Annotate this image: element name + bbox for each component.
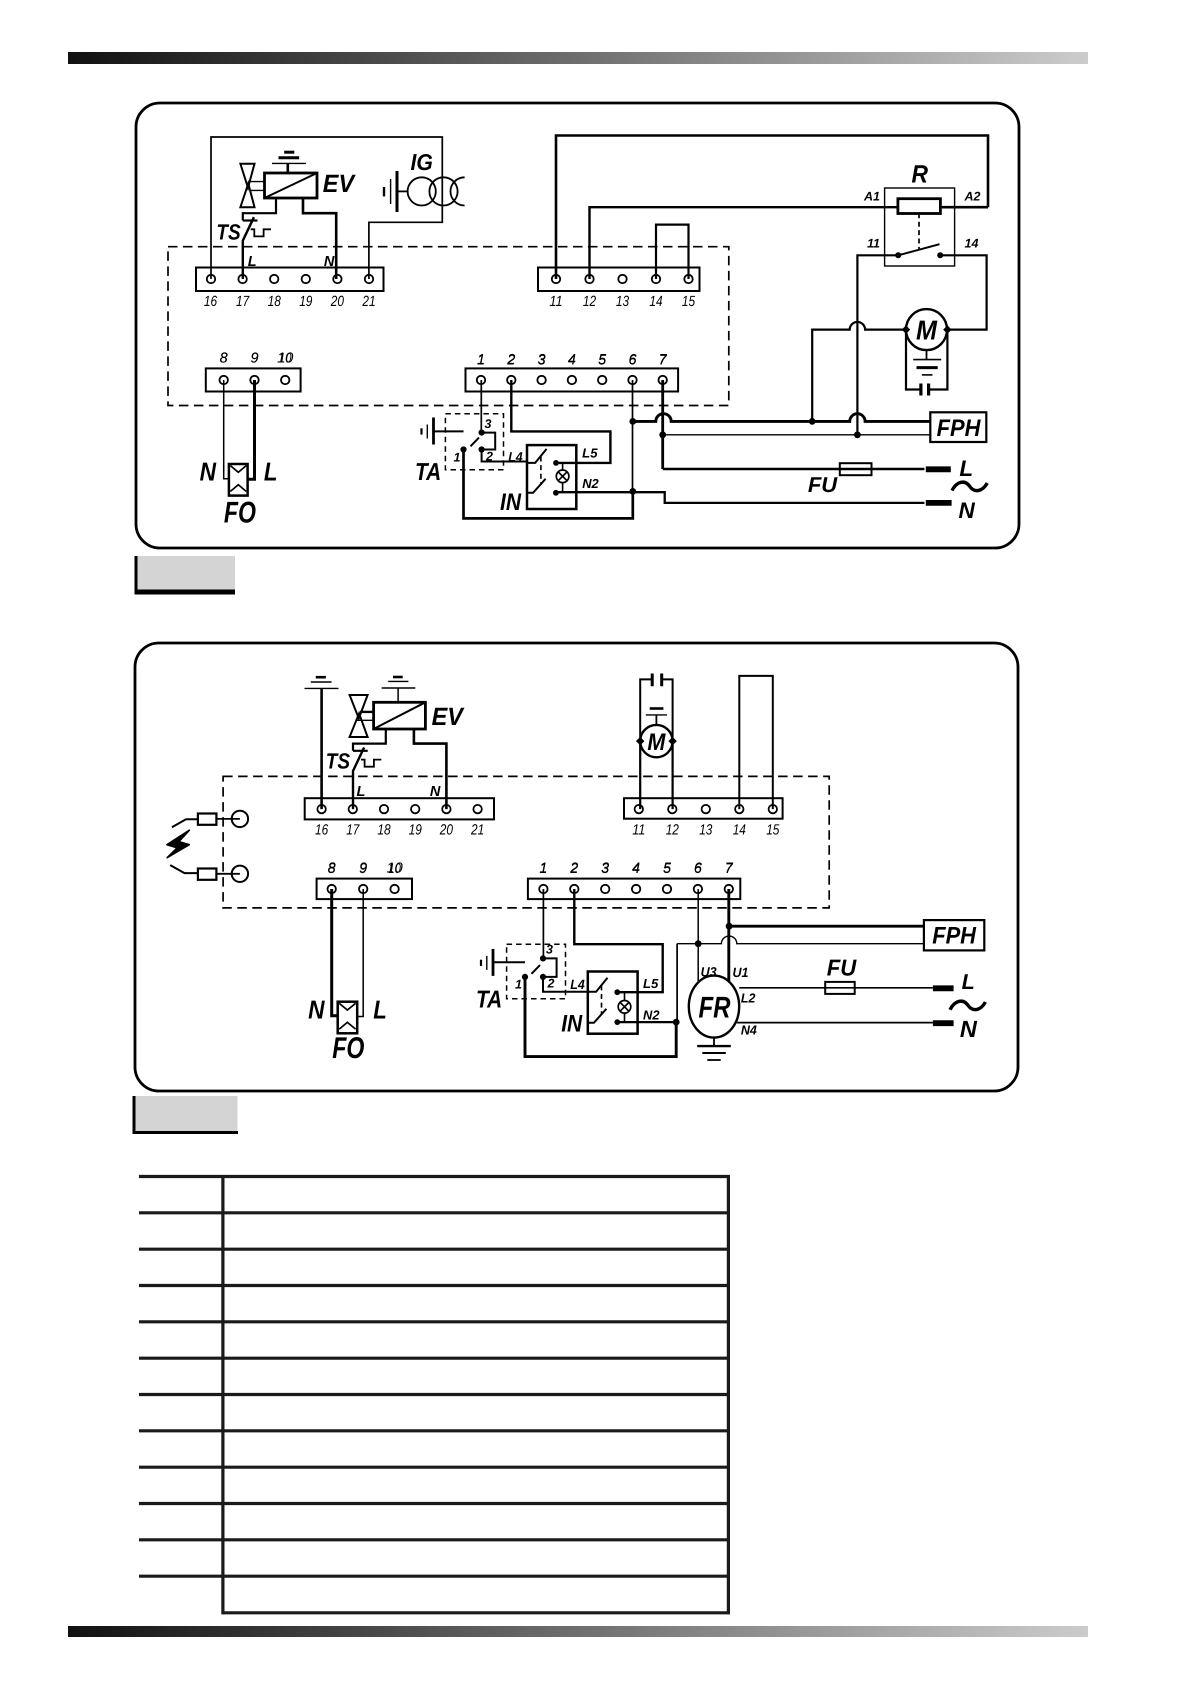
- svg-text:5: 5: [663, 861, 672, 877]
- svg-text:L: L: [357, 784, 366, 800]
- svg-text:4: 4: [632, 861, 640, 877]
- svg-text:L5: L5: [582, 445, 598, 460]
- svg-text:7: 7: [725, 861, 734, 877]
- svg-text:7: 7: [659, 352, 668, 368]
- svg-text:15: 15: [766, 823, 780, 839]
- svg-text:FPH: FPH: [937, 415, 981, 442]
- svg-text:EV: EV: [432, 703, 465, 731]
- svg-text:9: 9: [250, 351, 258, 367]
- svg-text:16: 16: [315, 823, 329, 839]
- svg-text:N: N: [959, 498, 976, 523]
- svg-text:FU: FU: [808, 473, 838, 497]
- svg-text:IN: IN: [500, 489, 522, 516]
- svg-text:15: 15: [682, 294, 696, 310]
- svg-text:16: 16: [204, 294, 218, 310]
- svg-text:12: 12: [666, 823, 680, 839]
- svg-text:12: 12: [583, 294, 597, 310]
- svg-text:L2: L2: [741, 990, 756, 1005]
- svg-text:N4: N4: [741, 1022, 758, 1037]
- svg-text:N: N: [324, 254, 335, 270]
- svg-text:N: N: [308, 995, 325, 1025]
- svg-text:M: M: [647, 729, 666, 756]
- svg-text:N2: N2: [582, 476, 599, 491]
- svg-text:17: 17: [346, 823, 360, 839]
- svg-text:L4: L4: [508, 450, 523, 465]
- svg-text:FU: FU: [827, 955, 858, 981]
- svg-text:L: L: [373, 995, 387, 1025]
- svg-text:17: 17: [236, 294, 250, 310]
- svg-text:20: 20: [439, 823, 454, 839]
- svg-text:3: 3: [601, 861, 609, 877]
- svg-text:3: 3: [538, 352, 546, 368]
- svg-text:L: L: [248, 254, 257, 270]
- svg-text:N: N: [430, 784, 441, 800]
- svg-text:18: 18: [268, 294, 282, 310]
- svg-text:6: 6: [628, 352, 637, 368]
- svg-text:1: 1: [477, 352, 485, 368]
- svg-text:4: 4: [568, 352, 576, 368]
- svg-text:N: N: [200, 456, 217, 486]
- svg-text:9: 9: [359, 861, 367, 877]
- svg-text:13: 13: [699, 823, 713, 839]
- svg-text:M: M: [916, 315, 938, 346]
- svg-text:L: L: [959, 456, 973, 481]
- svg-text:FO: FO: [332, 1032, 364, 1065]
- svg-text:2: 2: [506, 352, 515, 368]
- svg-text:TA: TA: [415, 459, 441, 486]
- svg-text:14: 14: [649, 294, 662, 310]
- svg-text:L: L: [264, 456, 278, 486]
- svg-text:1: 1: [454, 451, 461, 465]
- svg-text:FR: FR: [699, 992, 731, 1025]
- svg-text:2: 2: [547, 977, 555, 991]
- svg-text:5: 5: [598, 352, 607, 368]
- svg-text:EV: EV: [323, 170, 356, 198]
- svg-text:L5: L5: [643, 976, 659, 991]
- svg-text:IG: IG: [411, 149, 434, 175]
- svg-text:21: 21: [470, 823, 484, 839]
- svg-text:R: R: [912, 161, 929, 189]
- svg-text:3: 3: [546, 943, 553, 957]
- svg-text:18: 18: [377, 823, 391, 839]
- svg-text:19: 19: [299, 294, 312, 310]
- svg-text:1: 1: [515, 978, 522, 992]
- svg-text:8: 8: [220, 351, 228, 367]
- svg-text:14: 14: [965, 237, 979, 251]
- svg-text:U1: U1: [733, 965, 749, 980]
- svg-text:10: 10: [387, 861, 403, 877]
- svg-text:N: N: [960, 1016, 978, 1042]
- svg-text:FPH: FPH: [932, 923, 976, 950]
- svg-text:11: 11: [867, 237, 880, 251]
- svg-text:A2: A2: [964, 189, 981, 203]
- svg-text:L: L: [962, 970, 975, 994]
- svg-text:FO: FO: [224, 497, 256, 530]
- svg-text:20: 20: [330, 294, 345, 310]
- svg-text:IN: IN: [561, 1011, 583, 1038]
- svg-text:TS: TS: [216, 219, 241, 244]
- svg-text:2: 2: [569, 861, 578, 877]
- svg-text:TS: TS: [326, 749, 351, 774]
- svg-text:U3: U3: [701, 965, 717, 980]
- svg-text:6: 6: [694, 861, 703, 877]
- svg-text:N2: N2: [643, 1008, 660, 1023]
- svg-text:3: 3: [485, 417, 492, 431]
- svg-text:8: 8: [328, 861, 336, 877]
- svg-text:2: 2: [485, 450, 493, 464]
- svg-text:11: 11: [632, 823, 645, 839]
- svg-text:L4: L4: [570, 977, 585, 992]
- svg-text:11: 11: [549, 294, 562, 310]
- svg-text:10: 10: [277, 351, 293, 367]
- svg-text:19: 19: [409, 823, 422, 839]
- svg-text:21: 21: [362, 294, 376, 310]
- svg-text:13: 13: [616, 294, 630, 310]
- svg-text:1: 1: [539, 861, 547, 877]
- svg-text:TA: TA: [476, 987, 502, 1014]
- svg-text:A1: A1: [863, 189, 880, 203]
- svg-text:14: 14: [733, 823, 746, 839]
